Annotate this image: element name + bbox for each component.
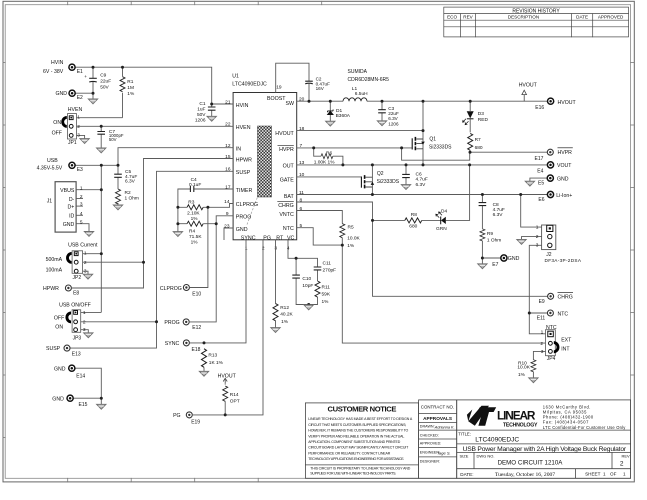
svg-text:ID: ID: [69, 214, 74, 220]
jumper JP3: [54, 310, 86, 342]
svg-text:1 Ohm: 1 Ohm: [487, 237, 501, 243]
svg-text:1: 1: [536, 225, 539, 231]
svg-text:100mA: 100mA: [46, 268, 63, 274]
svg-text:4.7uF: 4.7uF: [493, 207, 505, 213]
svg-text:R1: R1: [127, 79, 133, 85]
wire U1 GND pin23: [224, 228, 233, 240]
svg-text:680: 680: [409, 223, 417, 229]
svg-text:NTC: NTC: [283, 226, 294, 232]
resistor R5: [340, 224, 361, 250]
svg-text:6.3V: 6.3V: [125, 179, 136, 185]
svg-text:E9: E9: [539, 299, 545, 305]
node PROG terminal E12: [164, 319, 201, 331]
shunt on JP3 pins 1-2: [67, 313, 71, 322]
node SUSP terminal E13: [46, 345, 81, 357]
U1 bottom pin names: [241, 235, 295, 241]
node HVOUT terminal E16: [535, 98, 576, 111]
svg-text:ON: ON: [55, 324, 63, 330]
U1 pin numbers top/bottom: [245, 85, 290, 252]
svg-text:R6: R6: [326, 150, 332, 156]
svg-text:R8: R8: [411, 212, 417, 218]
svg-text:RED: RED: [478, 117, 489, 123]
svg-text:16V: 16V: [316, 86, 325, 91]
connector J1: [47, 182, 83, 232]
svg-text:1%: 1%: [322, 299, 330, 305]
jumper JP1: [52, 107, 83, 146]
wire E11 tap: [529, 312, 547, 314]
node Li-Ion+ terminal E6: [538, 191, 572, 203]
svg-text:USB Power Manager with 2A High: USB Power Manager with 2A High Voltage B…: [463, 446, 627, 453]
svg-text:19: 19: [276, 85, 282, 91]
wire CLPROG R3 line to U1 pin14: [178, 204, 233, 208]
wire USB/VBUS net E3 right: [75, 164, 118, 166]
U1 pin name overlines: [278, 145, 294, 147]
svg-text:C11: C11: [323, 261, 332, 267]
svg-text:E13: E13: [72, 351, 81, 357]
diode D3 LED RED: [463, 111, 489, 125]
wire HPWR vertical pin15 to E8: [72, 159, 233, 289]
svg-text:VBUS: VBUS: [60, 188, 75, 194]
svg-text:DEMO CIRCUIT 1210A: DEMO CIRCUIT 1210A: [498, 459, 564, 466]
svg-text:GND: GND: [557, 176, 569, 182]
wire R2 bottom lead: [117, 203, 119, 205]
capacitor C4: [189, 177, 201, 192]
svg-text:LINEAR: LINEAR: [497, 409, 536, 423]
svg-text:CDR6D28MN-6R5: CDR6D28MN-6R5: [348, 77, 390, 83]
wire J2 pin3 to E11 and JP4 pin1: [529, 245, 545, 333]
svg-text:BOOST: BOOST: [267, 96, 286, 102]
svg-text:Q2: Q2: [377, 171, 384, 177]
wire R14 leads: [224, 383, 226, 415]
svg-text:500mA: 500mA: [46, 257, 63, 263]
svg-text:1: 1: [77, 114, 80, 120]
svg-text:HVPR: HVPR: [279, 147, 294, 153]
svg-text:4.7uF: 4.7uF: [416, 177, 428, 183]
svg-text:APPROVED:: APPROVED:: [420, 442, 442, 446]
svg-text:E8: E8: [73, 291, 79, 297]
svg-text:Q1: Q1: [429, 137, 436, 143]
resistor R14 optional: [223, 386, 240, 405]
resistor R10: [517, 360, 536, 378]
svg-text:3: 3: [77, 133, 80, 139]
shunt on JP1 pins 1-2: [63, 117, 67, 126]
capacitor C3: [378, 106, 399, 126]
svg-text:Li-Ion+: Li-Ion+: [556, 193, 572, 199]
svg-text:R13: R13: [208, 353, 217, 359]
ground below J1 pin5: [84, 232, 93, 237]
svg-text:E3: E3: [77, 167, 83, 173]
svg-text:R7: R7: [475, 137, 481, 143]
ground at E5: [525, 181, 534, 186]
svg-text:APPROVED: APPROVED: [598, 15, 624, 20]
net flag HVOUT at E16: [519, 82, 538, 101]
svg-text:E11: E11: [537, 315, 546, 321]
svg-text:10.0K: 10.0K: [517, 365, 530, 371]
svg-text:71.5K: 71.5K: [189, 234, 202, 240]
svg-text:1206: 1206: [388, 121, 399, 126]
ground below C7: [97, 148, 106, 153]
svg-text:Si2333DS: Si2333DS: [377, 179, 400, 185]
svg-text:E18: E18: [192, 347, 201, 353]
svg-text:HPWR: HPWR: [43, 286, 59, 292]
svg-text:SUSP: SUSP: [236, 170, 251, 176]
svg-text:CIRCUIT BOARD LAYOUT MAY SIGNI: CIRCUIT BOARD LAYOUT MAY SIGNIFICANTLY A…: [308, 446, 409, 450]
wire C6 leads and ground: [405, 165, 407, 185]
inductor L1: [343, 69, 389, 101]
wire VNTC pin6 to R5: [297, 211, 343, 224]
svg-text:LINEAR TECHNOLOGY HAS MADE A B: LINEAR TECHNOLOGY HAS MADE A BEST EFFORT…: [308, 417, 413, 421]
wire R1 leads: [122, 67, 124, 118]
wire CLPROG vertical to E10: [190, 207, 208, 287]
svg-text:E4: E4: [537, 169, 543, 175]
svg-text:59K: 59K: [322, 291, 331, 297]
svg-text:LTC4090EDJC: LTC4090EDJC: [475, 436, 519, 443]
svg-text:INT: INT: [561, 347, 570, 353]
svg-text:THIS CIRCUIT IS PROPRIETARY TO: THIS CIRCUIT IS PROPRIETARY TO LINEAR TE…: [310, 466, 410, 470]
svg-text:CLPROG: CLPROG: [160, 286, 182, 292]
svg-text:3: 3: [541, 349, 544, 355]
svg-text:2: 2: [84, 260, 87, 266]
net flag HVOUT above R14: [218, 374, 237, 384]
transistor Q2 Si2333DS: [361, 171, 399, 189]
svg-text:REV: REV: [622, 453, 631, 458]
svg-text:R14: R14: [230, 392, 239, 398]
node GND terminal E7: [492, 255, 519, 268]
ground below R12: [271, 328, 280, 333]
svg-text:R5: R5: [348, 225, 354, 231]
svg-text:1%: 1%: [281, 319, 289, 325]
svg-text:GND: GND: [56, 91, 68, 97]
svg-text:VERIFY PROPER AND RELIABLE OPE: VERIFY PROPER AND RELIABLE OPERATION IN …: [308, 434, 404, 438]
svg-text:R2: R2: [125, 190, 131, 196]
svg-text:REV: REV: [463, 15, 473, 20]
wire PG net E19 to U1 pin2: [193, 240, 263, 415]
wire J2 pin2 to ground: [522, 237, 542, 240]
svg-text:USB Current: USB Current: [68, 242, 98, 248]
svg-text:USB ON/OFF: USB ON/OFF: [59, 303, 91, 309]
wire HVOUT vertical to pin18 and Q1: [297, 101, 423, 165]
svg-text:EXT: EXT: [561, 338, 572, 344]
node PG terminal E19: [173, 412, 200, 426]
svg-text:1%: 1%: [191, 216, 199, 222]
svg-text:PERFORMANCE OR RELIABILITY. C: PERFORMANCE OR RELIABILITY. CONTACT LINE…: [308, 451, 390, 455]
svg-text:D-: D-: [69, 197, 75, 203]
svg-text:1: 1: [84, 251, 87, 257]
svg-text:1206: 1206: [195, 117, 206, 123]
svg-text:CLPROG: CLPROG: [236, 202, 258, 208]
svg-text:ON: ON: [53, 120, 61, 126]
resistor R9: [480, 229, 501, 244]
svg-text:6.3V: 6.3V: [493, 212, 504, 218]
svg-text:JP3: JP3: [73, 336, 82, 342]
svg-text:E16: E16: [535, 105, 544, 111]
wire SUSP net pin16 to E13: [71, 171, 234, 348]
U1 right pin names: [267, 96, 295, 232]
svg-text:10pF: 10pF: [302, 283, 313, 289]
svg-text:SYNC: SYNC: [165, 341, 180, 347]
wire HVIN net E1 to U1 pin 21: [76, 67, 234, 104]
node VOUT terminal E4: [537, 162, 572, 175]
svg-text:PROG: PROG: [236, 215, 252, 221]
wire J2 pin1 to BAT: [521, 195, 542, 228]
svg-text:50V: 50V: [197, 112, 206, 118]
wire JP1 pin1 to R1: [77, 117, 123, 119]
svg-text:C1: C1: [199, 101, 205, 107]
svg-text:E1: E1: [77, 69, 83, 75]
svg-text:SYNC: SYNC: [241, 235, 256, 241]
svg-text:E10: E10: [192, 291, 201, 297]
svg-text:GND: GND: [54, 366, 66, 372]
svg-text:R11: R11: [322, 284, 331, 290]
connector J2 battery: [536, 225, 582, 263]
wire BOOST net pin19 to C2: [276, 63, 309, 92]
ground below C6: [401, 185, 410, 190]
node HPWR terminal E8: [43, 285, 79, 297]
ground below C9: [88, 99, 97, 104]
ground below TIMER R3 R4: [173, 232, 182, 237]
ground below C1: [207, 116, 216, 121]
svg-text:40.2K: 40.2K: [280, 312, 293, 318]
U1 pin numbers left: [224, 99, 231, 229]
resistor R13: [202, 349, 224, 367]
svg-text:2: 2: [77, 124, 80, 130]
resistor R12: [273, 304, 294, 326]
node USB terminal E3: [37, 158, 83, 173]
svg-text:OPT: OPT: [230, 399, 240, 405]
wire JP3 pin3 to ground: [81, 330, 89, 333]
revision history table text: [447, 8, 624, 19]
capacitor C1: [195, 101, 216, 123]
svg-text:6.3V: 6.3V: [416, 182, 427, 188]
svg-text:1: 1: [80, 185, 83, 191]
svg-text:GATE: GATE: [280, 178, 294, 184]
svg-text:22uF: 22uF: [100, 79, 111, 85]
svg-text:LTC4090EDJC: LTC4090EDJC: [232, 82, 267, 88]
capacitor C11: [314, 261, 336, 274]
wire R8 D4 to VOUT: [373, 165, 470, 221]
svg-text:SUSP: SUSP: [46, 346, 61, 352]
svg-text:E5: E5: [538, 180, 544, 186]
title block text: [458, 431, 630, 478]
node SYNC terminal E18: [165, 340, 201, 353]
wire R5 bottom lead: [341, 238, 343, 245]
svg-text:0.1uF: 0.1uF: [189, 182, 201, 188]
wire TIMER pin17 to C4: [178, 189, 233, 232]
wire C3 leads: [381, 101, 383, 121]
wire VC pin4 compensation net: [288, 240, 318, 305]
wire RT pin3 to R12: [275, 240, 277, 328]
svg-text:TECHNOLOGY APPLICATIONS ENGINE: TECHNOLOGY APPLICATIONS ENGINEERING FOR …: [308, 457, 404, 461]
svg-text:CUSTOMER NOTICE: CUSTOMER NOTICE: [328, 405, 397, 414]
jumper JP2: [46, 251, 87, 282]
wire C7 leads: [100, 126, 102, 148]
diode D4 LED GRN: [436, 209, 448, 232]
svg-text:C9: C9: [100, 73, 106, 79]
svg-text:2: 2: [540, 341, 543, 347]
svg-text:1: 1: [603, 472, 606, 477]
capacitor C10: [292, 275, 313, 289]
wire JP1 pin3 to ground: [77, 135, 85, 138]
svg-text:2: 2: [80, 194, 83, 200]
svg-text:E12: E12: [192, 325, 201, 331]
svg-text:HVOUT: HVOUT: [519, 82, 538, 88]
wire VBUS vertical to JP2/JP3: [100, 165, 102, 312]
svg-text:Tage S.: Tage S.: [437, 451, 451, 456]
capacitor C5: [114, 169, 137, 185]
svg-text:CIRCUIT THAT MEETS CUSTOMER-SU: CIRCUIT THAT MEETS CUSTOMER-SUPPLIED SPE…: [308, 423, 406, 427]
ground below D1: [326, 121, 335, 126]
node CHRG terminal E9: [539, 292, 573, 305]
wire D3 R7 chain: [469, 101, 471, 152]
svg-text:Adrianna K.: Adrianna K.: [434, 425, 455, 429]
svg-text:1M: 1M: [127, 85, 134, 91]
U1 pad-GND dashed tie: [247, 197, 258, 225]
svg-text:E6: E6: [538, 197, 544, 203]
svg-text:HVOUT: HVOUT: [558, 100, 577, 106]
wire IN pin12 to VBUS node: [118, 148, 233, 166]
node HVIN terminal E1: [43, 60, 83, 75]
svg-text:2.10K: 2.10K: [187, 210, 200, 216]
svg-text:R9: R9: [487, 231, 493, 237]
svg-text:3: 3: [536, 243, 539, 249]
wire JP2 pin1 to VBUS: [83, 253, 102, 255]
wire D1 leads and ground lead: [329, 101, 331, 121]
svg-text:OFF: OFF: [52, 130, 62, 136]
svg-text:4.35V-5.5V: 4.35V-5.5V: [37, 165, 63, 171]
svg-text:1%: 1%: [518, 372, 526, 378]
ground below JP2 pin3: [83, 274, 92, 279]
wire J1 GND pin5: [76, 224, 89, 232]
U1 pin numbers right: [299, 97, 305, 229]
resistor R6: [314, 150, 336, 165]
resistor R1: [120, 77, 135, 97]
svg-text:R3: R3: [188, 199, 194, 205]
svg-text:3: 3: [84, 269, 87, 275]
wire BAT net pin11 to E6: [297, 194, 548, 196]
svg-text:1%: 1%: [347, 243, 355, 249]
svg-text:50V: 50V: [109, 137, 117, 142]
svg-text:E15: E15: [79, 402, 88, 408]
svg-text:SUMIDA: SUMIDA: [348, 69, 368, 75]
svg-text:GND: GND: [63, 222, 75, 228]
wire R13 bottom lead: [203, 367, 205, 371]
ground below R13: [199, 371, 208, 376]
svg-text:HVPR: HVPR: [558, 150, 573, 156]
node GND terminal E5: [538, 175, 569, 186]
svg-text:3: 3: [83, 327, 86, 333]
svg-text:R12: R12: [280, 305, 289, 311]
wire C5 leads: [117, 165, 119, 189]
svg-text:D+: D+: [68, 205, 75, 211]
wire Q2 drain/source vertical: [371, 165, 373, 195]
svg-text:DESCRIPTION: DESCRIPTION: [508, 15, 539, 20]
node HVPR terminal E17: [535, 148, 573, 162]
svg-text:R4: R4: [189, 229, 195, 235]
svg-text:D3: D3: [478, 111, 484, 117]
svg-text:OF: OF: [610, 472, 617, 477]
diode D1 B360A: [327, 108, 351, 119]
svg-text:E7: E7: [492, 262, 498, 268]
svg-text:TITLE:: TITLE:: [458, 431, 471, 436]
svg-text:HVIN: HVIN: [51, 60, 64, 66]
wire NTC net to JP4 pin2: [342, 245, 545, 343]
resistor R3: [187, 199, 203, 221]
svg-text:B360A: B360A: [336, 113, 351, 119]
svg-text:E2: E2: [77, 95, 83, 101]
svg-text:Tuesday, October 16, 2007: Tuesday, October 16, 2007: [495, 472, 555, 478]
svg-text:3: 3: [80, 202, 83, 208]
svg-text:14: 14: [224, 199, 230, 205]
svg-text:TIMER: TIMER: [236, 188, 253, 194]
svg-text:GRN: GRN: [436, 226, 447, 232]
svg-text:VOUT: VOUT: [557, 163, 572, 169]
wire NTC pin5 to R5 bottom: [297, 228, 343, 245]
ground at J2 pin2: [517, 239, 526, 244]
svg-text:CHRG: CHRG: [558, 295, 573, 301]
svg-text:C10: C10: [302, 276, 311, 282]
U1 left pin names: [236, 103, 258, 233]
svg-text:ECO: ECO: [447, 15, 457, 20]
svg-text:1%: 1%: [127, 91, 135, 97]
svg-text:PROG: PROG: [164, 320, 179, 326]
wire J1 D- stub: [76, 198, 83, 200]
wire SYNC net E18 to U1 pin1: [190, 240, 246, 343]
node NTC terminal E11: [537, 310, 569, 321]
svg-text:2: 2: [83, 319, 86, 325]
wire HVPR pin7 to Q1 gate: [297, 147, 412, 149]
svg-text:6.3V: 6.3V: [388, 116, 398, 121]
customer notice text: [308, 405, 413, 476]
svg-text:GND: GND: [236, 227, 248, 233]
ground below C3: [377, 121, 386, 126]
ground below JP3 pin3: [84, 333, 93, 338]
wire SW/HVOUT line pin20 to E16: [297, 100, 548, 102]
op-amp U1 LTC4090EDJC body: [232, 74, 296, 240]
svg-text:JP1: JP1: [68, 140, 77, 146]
capacitor C2: [305, 77, 330, 91]
svg-text:RT: RT: [276, 235, 284, 241]
svg-text:PG: PG: [263, 235, 271, 241]
svg-text:PG: PG: [173, 413, 181, 419]
svg-text:E19: E19: [191, 420, 200, 426]
svg-text:SUPPLIED FOR USE WITH LINEAR T: SUPPLIED FOR USE WITH LINEAR TECHNOLOGY …: [310, 472, 396, 476]
Linear Technology logo: [467, 405, 626, 430]
wire J1 D+ stub: [76, 205, 83, 207]
wire HVPR branch to R7 bottom: [402, 148, 470, 160]
ground below VC network: [304, 305, 313, 310]
svg-text:USB: USB: [47, 158, 58, 164]
capacitor C6: [402, 171, 428, 188]
svg-text:1: 1: [541, 329, 544, 335]
svg-text:GND: GND: [508, 256, 520, 262]
node GND terminal E2: [56, 90, 84, 101]
wire R9 bottom to E7: [482, 241, 500, 264]
resistor R11: [315, 281, 331, 305]
svg-text:Si2333DS: Si2333DS: [429, 145, 452, 151]
wire JP3 pin2 to SUSP vertical: [81, 321, 157, 323]
node GND terminal E15: [52, 395, 87, 408]
svg-text:1 Ohm: 1 Ohm: [125, 196, 139, 202]
svg-text:1K 1%: 1K 1%: [209, 360, 224, 366]
svg-text:1.00K 1%: 1.00K 1%: [314, 160, 336, 166]
svg-text:2: 2: [536, 234, 539, 240]
ground below JP1 pin3: [80, 139, 89, 144]
svg-text:HVEN: HVEN: [68, 107, 83, 113]
svg-text:DATE:: DATE:: [460, 472, 473, 477]
svg-text:C6: C6: [416, 171, 422, 177]
wire C8 leads: [481, 195, 483, 229]
svg-text:5: 5: [80, 219, 83, 225]
